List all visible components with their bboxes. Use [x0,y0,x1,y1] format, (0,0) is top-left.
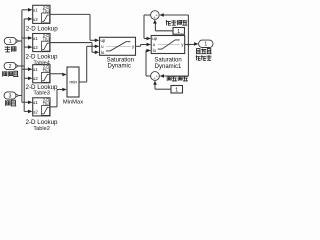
svg-text:1: 1 [177,29,180,35]
svg-text:up: up [152,36,157,41]
svg-text:Saturation: Saturation [154,58,181,64]
svg-text:1: 1 [204,42,207,48]
svg-text:u1: u1 [33,8,39,13]
svg-text:1: 1 [9,39,12,45]
svg-text:Saturation: Saturation [107,57,134,63]
svg-text:up: up [101,38,106,43]
svg-text:u1: u1 [33,100,39,105]
svg-text:3: 3 [9,93,12,99]
svg-text:lo: lo [153,48,157,53]
svg-text:min: min [69,80,77,86]
svg-text:2: 2 [9,64,12,70]
svg-text:u2: u2 [33,76,39,81]
svg-text:1: 1 [175,88,178,94]
svg-text:u1: u1 [33,36,39,41]
svg-text:Table4: Table4 [33,60,49,66]
svg-text:Table2: Table2 [33,126,49,132]
svg-text:Dynamic1: Dynamic1 [155,64,182,70]
svg-text:Dynamic: Dynamic [108,63,131,69]
svg-text:2-D Lookup: 2-D Lookup [26,25,59,32]
svg-text:Table3: Table3 [33,91,49,97]
svg-text:MinMax: MinMax [63,99,83,105]
svg-text:2-D Lookup: 2-D Lookup [26,119,59,126]
svg-text:u2: u2 [33,109,39,114]
svg-text:u2: u2 [33,45,39,50]
svg-text:u2: u2 [33,17,39,22]
svg-text:u1: u1 [33,67,39,72]
